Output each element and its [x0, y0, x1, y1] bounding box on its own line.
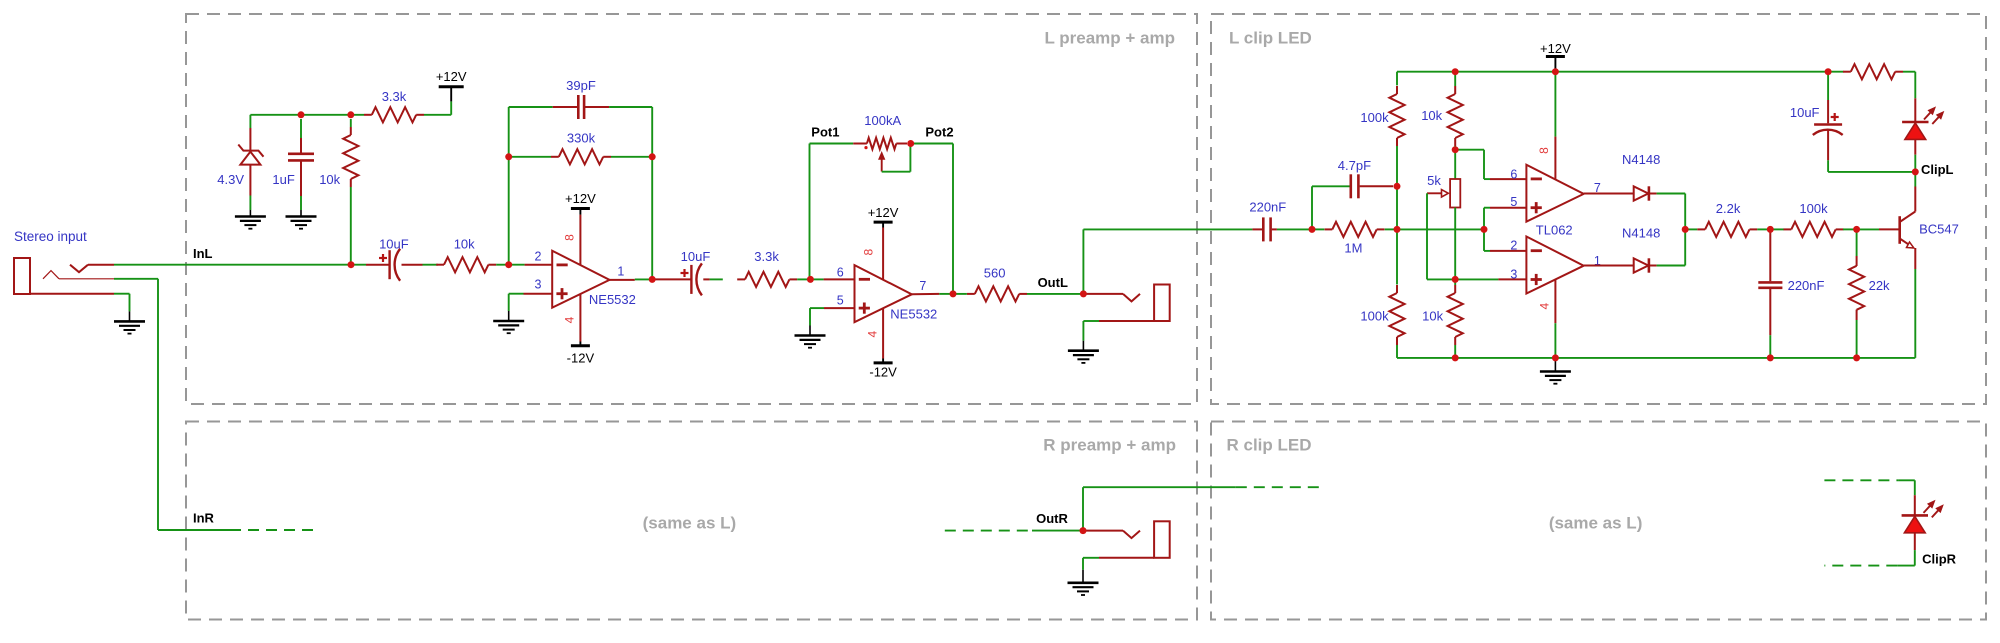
svg-text:ClipR: ClipR	[1922, 552, 1957, 567]
wire pin6 (U2)	[810, 278, 854, 280]
label 4.7pF	[1338, 158, 1371, 173]
resistor 22k	[1849, 229, 1864, 320]
node ClipR label	[1922, 552, 1957, 567]
pin label 3 (U3B)	[1510, 267, 1517, 281]
svg-text:N4148: N4148	[1622, 225, 1660, 240]
label TL062	[1536, 222, 1573, 237]
input jack ring contact (InR)	[43, 271, 114, 279]
placeholder text (same as L) left	[643, 514, 737, 533]
wire 10k to pin2 node	[496, 264, 509, 266]
svg-text:100k: 100k	[1360, 309, 1389, 324]
svg-text:L clip LED: L clip LED	[1229, 29, 1312, 48]
svg-text:NE5532: NE5532	[890, 307, 937, 322]
pin label 4 (U3)	[1538, 302, 1552, 309]
label 5k	[1427, 173, 1441, 188]
junction U1 output	[649, 276, 656, 283]
wire pin3 to ground	[509, 294, 553, 311]
pin label 6 (U2)	[837, 265, 844, 279]
svg-text:8: 8	[862, 248, 876, 255]
junction InL-10k	[348, 261, 355, 268]
junction pin5 node	[1481, 226, 1488, 233]
svg-text:3: 3	[535, 278, 542, 292]
svg-text:1M: 1M	[1344, 240, 1362, 255]
pin label 1 (U1)	[617, 264, 624, 278]
wire U2 output	[912, 293, 953, 295]
svg-text:5k: 5k	[1427, 173, 1441, 188]
pin 4 line (U3)	[1554, 280, 1556, 358]
wire node to base	[1857, 228, 1900, 230]
svg-text:Pot2: Pot2	[925, 124, 953, 139]
svg-text:1uF: 1uF	[272, 172, 294, 187]
wire U3B out	[1584, 265, 1634, 267]
svg-text:1: 1	[617, 264, 624, 278]
pin label 2 (U3B)	[1510, 239, 1517, 253]
svg-text:+12V: +12V	[1540, 41, 1571, 56]
label 100k (lower divider)	[1360, 309, 1389, 324]
label 22k	[1869, 278, 1890, 293]
svg-text:OutL: OutL	[1038, 275, 1068, 290]
node Pot2 label	[925, 124, 953, 139]
label 2.2k	[1716, 201, 1741, 216]
label 10k (lower)	[1422, 309, 1443, 324]
junction rail-22k	[1853, 354, 1860, 361]
svg-text:10uF: 10uF	[1790, 105, 1820, 120]
section title: L clip LED	[1229, 29, 1312, 48]
capacitor 10uF (peak hold)	[1813, 72, 1843, 161]
svg-text:ClipL: ClipL	[1921, 162, 1954, 177]
input jack tip contact (InL)	[70, 265, 114, 273]
block border: R clip LED	[1211, 422, 1986, 620]
pin 4 line (U1)	[579, 294, 581, 346]
label NE5532 (U2)	[890, 307, 937, 322]
resistor (LED series)	[1843, 64, 1903, 79]
svg-text:10k: 10k	[1421, 108, 1442, 123]
svg-text:100k: 100k	[1360, 110, 1389, 125]
junction feedback left	[505, 153, 512, 160]
wire 560 to OutL	[1027, 293, 1083, 295]
svg-text:560: 560	[984, 266, 1006, 281]
node InL label	[193, 246, 213, 261]
label 10k (upper)	[1421, 108, 1442, 123]
LED ClipR arrows	[1924, 501, 1943, 517]
ground (U1 pin3)	[493, 311, 524, 333]
trimmer 5k body	[1450, 179, 1460, 208]
resistor 10k (series)	[436, 257, 496, 272]
wire 220nF to rail	[1769, 335, 1771, 358]
svg-text:OutR: OutR	[1036, 511, 1068, 526]
wire bias rail	[250, 115, 364, 128]
pin label 6 (U3A)	[1510, 168, 1517, 182]
svg-text:R preamp + amp: R preamp + amp	[1043, 436, 1176, 455]
svg-text:8: 8	[563, 234, 577, 241]
wire diode2 to join	[1657, 229, 1686, 265]
wire sleeve to ground	[114, 294, 130, 312]
wire cap to node	[1277, 228, 1312, 230]
polarity + (10uF interstage)	[681, 269, 689, 277]
svg-text:Pot1: Pot1	[811, 124, 839, 139]
svg-text:+12V: +12V	[565, 191, 596, 206]
svg-text:3.3k: 3.3k	[382, 89, 407, 104]
wire 100k to 4.7pF node	[1396, 146, 1398, 285]
wire OutR dashed right	[1236, 486, 1326, 488]
section title: L preamp + amp	[1044, 29, 1175, 48]
pin label 7 (U2)	[919, 279, 926, 293]
capacitor 220nF (clip input)	[1252, 217, 1277, 241]
junction OutL	[1080, 290, 1087, 297]
wire OutR dashed left	[945, 530, 1032, 532]
wire LED to ClipL node	[1914, 155, 1916, 172]
LED ClipL	[1902, 98, 1928, 154]
svg-text:4: 4	[1538, 302, 1552, 309]
junction pin6 node	[807, 276, 814, 283]
svg-text:10uF: 10uF	[379, 237, 409, 252]
power +12V (TL062)	[1540, 41, 1571, 72]
wire 3.3k to pin6 node	[797, 278, 810, 280]
resistor 10k (upper)	[1454, 72, 1456, 86]
junction 22k node	[1853, 226, 1860, 233]
wire 3.3k to +12V	[424, 88, 451, 115]
wire pin3 (U3B)	[1455, 278, 1526, 280]
transistor Q1 BC547	[1900, 187, 1916, 270]
output jack tip contact (L)	[1083, 294, 1140, 302]
svg-text:10uF: 10uF	[681, 249, 711, 264]
node InR label	[193, 511, 215, 526]
label 10k (bias)	[319, 172, 340, 187]
wire ref node to trimmer	[1454, 150, 1456, 179]
ground (U2 pin5)	[795, 326, 826, 348]
pin label 1 (U3B)	[1594, 254, 1601, 268]
polarity + (10uF input)	[379, 254, 387, 262]
svg-text:InL: InL	[193, 246, 213, 261]
svg-text:4: 4	[866, 330, 880, 337]
resistor 560	[967, 286, 1027, 301]
label 39pF	[566, 78, 596, 93]
label BC547	[1919, 221, 1959, 236]
label 100k (upper divider)	[1360, 110, 1389, 125]
power +12V (U1)	[565, 191, 596, 209]
junction diode join	[1682, 226, 1689, 233]
node ClipL label	[1921, 162, 1954, 177]
wire pot right leg	[911, 144, 953, 294]
svg-text:NE5532: NE5532	[589, 292, 636, 307]
potentiometer 100kA	[853, 138, 907, 172]
zener diode 4.3V	[238, 128, 263, 196]
junction feedback right	[649, 153, 656, 160]
junction U2 output	[950, 290, 957, 297]
svg-text:5: 5	[837, 294, 844, 308]
wire 2.2k to node	[1757, 228, 1770, 230]
block border: L clip LED	[1211, 14, 1986, 404]
node OutR label	[1036, 511, 1068, 526]
resistor 10k (upper) body	[1448, 86, 1463, 146]
label 10k (series)	[454, 237, 475, 252]
input jack J1 body	[14, 258, 114, 294]
svg-text:2: 2	[535, 250, 542, 264]
junction ClipL	[1912, 168, 1919, 175]
wire pin2	[509, 264, 553, 266]
wire emitter to rail	[1914, 269, 1916, 358]
output jack body (L)	[1099, 285, 1170, 322]
svg-text:TL062: TL062	[1536, 222, 1573, 237]
ground (1uF)	[286, 210, 317, 229]
power +12V (bias)	[436, 69, 467, 87]
wire to 560	[953, 293, 967, 295]
pin label 4 (U1)	[563, 316, 577, 323]
label 100kA	[864, 113, 901, 128]
pin 4 line (U2)	[882, 308, 884, 363]
wire feedback right vertical	[651, 157, 653, 280]
label 330k	[567, 131, 596, 146]
svg-text:4: 4	[563, 316, 577, 323]
wire jack sleeve to ground (L)	[1083, 321, 1099, 341]
op-amp U3B TL062	[1526, 237, 1583, 294]
output jack body (R)	[1099, 521, 1170, 558]
junction pin2 node	[505, 261, 512, 268]
capacitor 39pF	[553, 95, 609, 119]
wire zener to ground	[249, 196, 251, 211]
wire ClipR dashed top	[1824, 479, 1898, 481]
svg-text:10k: 10k	[454, 237, 475, 252]
wire node up to 4.7pF	[1312, 186, 1350, 229]
label NE5532 (U1)	[589, 292, 636, 307]
svg-text:2.2k: 2.2k	[1716, 201, 1741, 216]
wire feedback top right	[609, 107, 652, 157]
wire InR ring to corner	[114, 279, 230, 530]
wire OutR up and right	[1083, 487, 1236, 530]
wire trimmer to pin3 node	[1454, 208, 1456, 280]
wire main node to pin5 node	[1397, 228, 1484, 230]
junction bias-1uF	[298, 111, 305, 118]
pin label 8 (U3)	[1537, 147, 1551, 154]
pin 8 line (U2)	[882, 222, 884, 279]
polarity + (10uF peak)	[1831, 113, 1839, 121]
label 1uF	[272, 172, 294, 187]
svg-text:4.7pF: 4.7pF	[1338, 158, 1371, 173]
resistor 1M	[1312, 222, 1397, 237]
block border: L preamp + amp	[186, 14, 1197, 404]
resistor 330k	[509, 149, 653, 164]
wire pot left leg	[810, 144, 854, 280]
power +12V (U2)	[868, 205, 899, 222]
svg-text:220nF: 220nF	[1788, 278, 1825, 293]
node OutL label	[1038, 275, 1068, 290]
svg-text:6: 6	[1510, 168, 1517, 182]
wire OutR solid	[1032, 530, 1083, 532]
resistor 100k (upper divider)	[1389, 86, 1404, 146]
ground (OutL jack)	[1068, 341, 1099, 363]
resistor 3.3k	[364, 107, 424, 122]
wire cap to 3.3k	[710, 278, 723, 280]
wire pot wiper link	[882, 144, 911, 172]
resistor 100k (lower divider)	[1389, 285, 1404, 345]
wire 22k to rail	[1856, 320, 1858, 358]
label 10uF (peak)	[1790, 105, 1820, 120]
resistor 2.2k	[1697, 222, 1757, 237]
junction ref node	[1452, 146, 1459, 153]
svg-text:+12V: +12V	[436, 69, 467, 84]
label 3.3k (interstage)	[754, 249, 779, 264]
pin label 3 (U1)	[535, 278, 542, 292]
diode N4148 (lower)	[1634, 258, 1657, 272]
capacitor 10uF (input coupling)	[366, 249, 423, 281]
svg-text:7: 7	[919, 279, 926, 293]
wire U3A out	[1584, 193, 1634, 195]
wire pin5 to ground	[810, 308, 855, 325]
svg-text:L preamp + amp: L preamp + amp	[1044, 29, 1175, 48]
wire ClipL to collector	[1914, 172, 1916, 187]
power -12V (U1)	[567, 346, 595, 366]
label 100k (base)	[1799, 201, 1828, 216]
svg-text:(same as L): (same as L)	[1549, 514, 1643, 533]
pin label 5 (U2)	[837, 294, 844, 308]
label 1M	[1344, 240, 1362, 255]
output jack tip contact (R)	[1083, 531, 1140, 539]
pin label 5 (U3A)	[1510, 195, 1517, 209]
label Stereo input	[14, 229, 87, 244]
junction 4.7pF right	[1394, 183, 1401, 190]
label 220nF (clip input)	[1249, 199, 1286, 214]
op-amp U3A TL062	[1526, 165, 1583, 222]
junction bias-10k	[347, 111, 354, 118]
ground (TL062)	[1540, 358, 1571, 384]
svg-text:10k: 10k	[319, 172, 340, 187]
junction gnd rail	[1552, 354, 1559, 361]
pin 8 line (U1)	[579, 209, 581, 266]
wire +12V rail right segment junction	[1825, 68, 1832, 75]
svg-text:330k: 330k	[567, 131, 596, 146]
wire feedback top	[509, 106, 553, 108]
svg-text:N4148: N4148	[1622, 152, 1660, 167]
resistor 10k (bias)	[343, 119, 358, 187]
resistor 10k (lower)	[1448, 279, 1463, 358]
svg-text:10k: 10k	[1422, 309, 1443, 324]
placeholder text (same as L) right	[1549, 514, 1643, 533]
wire pin5-pin2 tie	[1484, 208, 1526, 251]
svg-text:3.3k: 3.3k	[754, 249, 779, 264]
label 4.3V	[217, 172, 244, 187]
svg-text:3: 3	[1510, 267, 1517, 281]
resistor 100k (base)	[1770, 222, 1856, 237]
svg-text:Stereo input: Stereo input	[14, 229, 87, 244]
junction +12V rail	[1552, 68, 1559, 75]
svg-text:100kA: 100kA	[864, 113, 901, 128]
junction clip in node	[1309, 226, 1316, 233]
wire ClipR top corner	[1899, 480, 1915, 495]
wire OutL to clip input	[1083, 229, 1252, 294]
diode N4148 (upper)	[1634, 186, 1657, 200]
LED ClipL arrows	[1924, 108, 1943, 124]
wire bottom rail	[1455, 357, 1915, 359]
wire ref node to pin6	[1455, 150, 1526, 179]
label N4148 (upper)	[1622, 152, 1660, 167]
resistor 3.3k (interstage)	[737, 272, 797, 287]
svg-text:+12V: +12V	[868, 205, 899, 220]
wire 100k lower to rail	[1397, 345, 1455, 358]
svg-text:22k: 22k	[1869, 278, 1890, 293]
pin label 8 (U1)	[563, 234, 577, 241]
wire ClipR dashed bottom	[1824, 565, 1897, 567]
ground (input jack)	[114, 311, 145, 333]
label 220nF (timing)	[1788, 278, 1825, 293]
junction pot wiper-right	[907, 140, 914, 147]
label 560	[984, 266, 1006, 281]
label 10uF (interstage)	[681, 249, 711, 264]
ground (OutR jack)	[1068, 570, 1099, 595]
trimmer 5k wiper arrow	[1427, 190, 1448, 197]
svg-text:39pF: 39pF	[566, 78, 596, 93]
wire 10k to ref node	[1454, 146, 1456, 150]
wire 10k to InL	[350, 187, 352, 265]
node Pot1 label	[811, 124, 839, 139]
label 3.3k	[382, 89, 407, 104]
wire 1uF to ground	[300, 196, 302, 210]
section title: R preamp + amp	[1043, 436, 1176, 455]
junction bottom rail-10k	[1452, 354, 1459, 361]
wire top rail	[1397, 72, 1844, 86]
junction 220nF node	[1767, 226, 1774, 233]
svg-text:(same as L): (same as L)	[643, 514, 737, 533]
wire U1 output	[610, 278, 653, 281]
junction OutR	[1080, 527, 1087, 534]
svg-text:BC547: BC547	[1919, 221, 1959, 236]
section title: R clip LED	[1227, 436, 1312, 455]
block border: R preamp + amp	[186, 422, 1197, 620]
wire join to 2.2k	[1685, 228, 1697, 230]
wire jack sleeve to ground (R)	[1083, 558, 1099, 570]
capacitor 10uF (interstage)	[652, 263, 709, 295]
power -12V (U2)	[869, 363, 897, 379]
op-amp U1 NE5532 (L preamp)	[552, 251, 609, 308]
wire ClipR bottom corner	[1897, 550, 1915, 566]
wire diode1 to join	[1657, 194, 1686, 230]
ground (zener)	[235, 210, 266, 229]
svg-text:4.3V: 4.3V	[217, 172, 244, 187]
svg-text:220nF: 220nF	[1249, 199, 1286, 214]
capacitor 1uF	[288, 119, 314, 196]
wire 10uF to ClipL	[1828, 160, 1915, 172]
capacitor 4.7pF	[1351, 174, 1393, 198]
wire resistor to LED	[1903, 72, 1915, 99]
svg-text:8: 8	[1537, 147, 1551, 154]
wire cap to 10k	[423, 264, 438, 266]
pin label 7 (U3A)	[1594, 181, 1601, 195]
wire feedback left vertical	[508, 107, 510, 265]
wire wiper down	[1427, 193, 1455, 279]
wire InL	[114, 264, 366, 266]
label N4148 (lower)	[1622, 225, 1660, 240]
pin label 2 (U1)	[535, 250, 542, 264]
junction pin3 node	[1452, 276, 1459, 283]
svg-text:InR: InR	[193, 511, 215, 526]
junction rail-220nF	[1767, 354, 1774, 361]
label 10uF (input)	[379, 237, 409, 252]
pin label 8 (U2)	[862, 248, 876, 255]
LED ClipR	[1902, 495, 1928, 550]
junction top rail-10k	[1452, 68, 1459, 75]
svg-text:6: 6	[837, 265, 844, 279]
svg-text:R clip LED: R clip LED	[1227, 436, 1312, 455]
capacitor 220nF (timing)	[1758, 229, 1782, 335]
svg-text:-12V: -12V	[869, 364, 897, 379]
svg-text:100k: 100k	[1799, 201, 1828, 216]
op-amp U2 NE5532 (L amp)	[855, 265, 912, 322]
junction 1M right	[1394, 226, 1401, 233]
svg-text:-12V: -12V	[567, 351, 595, 366]
pin 8 line (U3)	[1554, 72, 1556, 180]
wire InR dashed stub	[230, 529, 316, 531]
pin label 4 (U2)	[866, 330, 880, 337]
